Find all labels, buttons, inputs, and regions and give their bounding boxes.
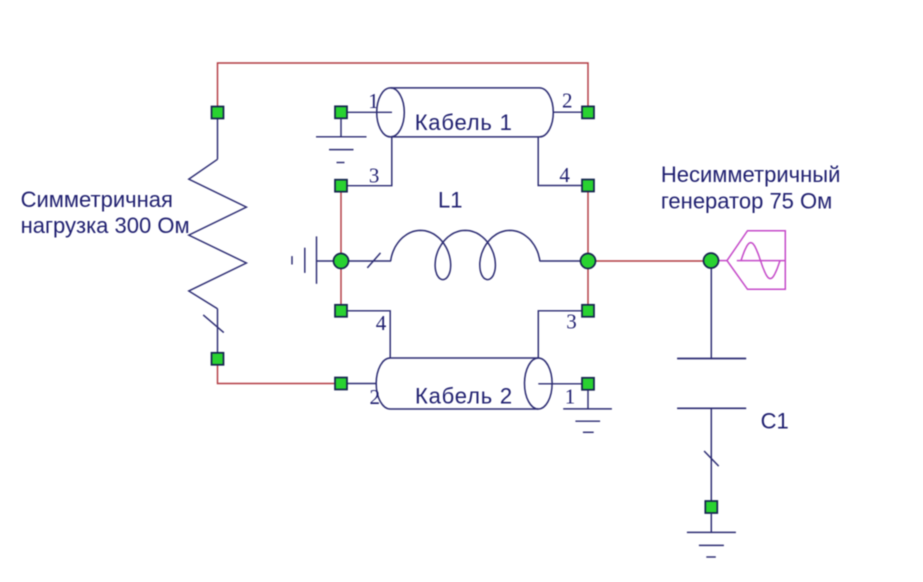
wire blue: cable1 pin1 square to ellipse center	[347, 111, 392, 113]
wire blue: cable1 bottom to pin4 square	[538, 137, 582, 186]
wire red: cable1 pin4 down through node B to cable2 pin3	[587, 192, 589, 306]
svg-text:1: 1	[565, 384, 576, 408]
cable2 pin4 square	[335, 305, 347, 317]
wire red top loop: load top to cable1 pin2	[218, 63, 589, 106]
cable2 pin3 square	[582, 305, 594, 317]
node B junction circle	[581, 254, 596, 269]
svg-text:1: 1	[368, 89, 379, 113]
node A junction circle	[334, 254, 349, 269]
generator G1 body (Несимметричный генератор 75 Ом)	[727, 231, 786, 290]
ground under cable2 pin1	[563, 390, 612, 432]
svg-text:Симметричная: Симметричная	[21, 187, 173, 212]
wire blue: square to bottom ground	[710, 513, 712, 532]
wire blue: load top square to resistor	[217, 119, 219, 160]
svg-text:Несимметричный: Несимметричный	[661, 162, 840, 187]
resistor variability slash	[203, 315, 224, 333]
svg-text:C1: C1	[761, 408, 789, 433]
node C junction circle	[704, 253, 719, 268]
cable 1 body (Кабель 1)	[377, 88, 554, 137]
load bottom square	[212, 353, 224, 365]
ground bottom under C1	[687, 532, 736, 557]
wire blue: cable1 right cap to pin2 square	[553, 111, 582, 113]
wire blue: cable2 pin3 square to cable top	[538, 311, 582, 358]
wire blue: inductor to node B	[540, 260, 582, 262]
wire blue: cable1 pin3 square to cable bottom	[347, 137, 392, 186]
svg-text:Кабель 2: Кабель 2	[415, 383, 513, 408]
capacitor variability slash	[704, 451, 719, 466]
cable2 pin1 square	[582, 378, 594, 390]
wire red: load bottom square to cable2 pin2 square	[218, 365, 336, 384]
C1 ground square	[705, 501, 717, 513]
capacitor C1 plates	[677, 359, 746, 409]
wire blue: resistor bottom to load bottom square	[217, 309, 219, 353]
wire blue: node A to inductor	[348, 260, 391, 262]
generator node C wire stub (magenta)	[718, 260, 727, 262]
svg-text:2: 2	[370, 385, 381, 409]
svg-text:2: 2	[562, 89, 573, 113]
wire blue: capacitor bottom plate down to square	[710, 408, 712, 501]
wire blue: cable2 ellipse center to pin1 square	[538, 383, 582, 385]
svg-text:Кабель 1: Кабель 1	[415, 110, 513, 135]
svg-text:3: 3	[566, 310, 577, 334]
cable1 pin1 square	[335, 106, 347, 118]
svg-text:4: 4	[559, 163, 570, 187]
inductor L1 variability slash	[367, 253, 380, 268]
cable 2 body (Кабель 2)	[376, 358, 552, 409]
wire blue: cable2 pin4 square to cable top	[347, 311, 390, 358]
wire blue: cable2 pin2 square to cable left cap	[347, 383, 376, 385]
cable2 pin2 square	[335, 378, 347, 390]
inductor L1 coil	[391, 230, 540, 279]
svg-text:нагрузка 300 Ом: нагрузка 300 Ом	[21, 213, 190, 238]
load top square	[212, 107, 224, 119]
wire red: cable1 pin3 down through node A to cable2 pin4	[340, 192, 342, 305]
svg-text:3: 3	[369, 163, 380, 187]
wire blue: node C down to capacitor C1	[710, 268, 712, 359]
wire red: node B to generator node C	[588, 260, 711, 262]
ground left of node A (rotated)	[292, 236, 334, 283]
svg-text:L1: L1	[438, 188, 462, 213]
cable1 pin2 square	[582, 106, 594, 118]
svg-text:4: 4	[376, 311, 387, 335]
resistor R (Симметричная нагрузка 300 Ом) zigzag	[189, 159, 247, 308]
svg-text:генератор 75 Ом: генератор 75 Ом	[661, 189, 832, 214]
ground under cable1 pin1	[316, 118, 367, 162]
cable1 pin4 square	[582, 180, 594, 192]
cable1 pin3 square	[335, 180, 347, 192]
